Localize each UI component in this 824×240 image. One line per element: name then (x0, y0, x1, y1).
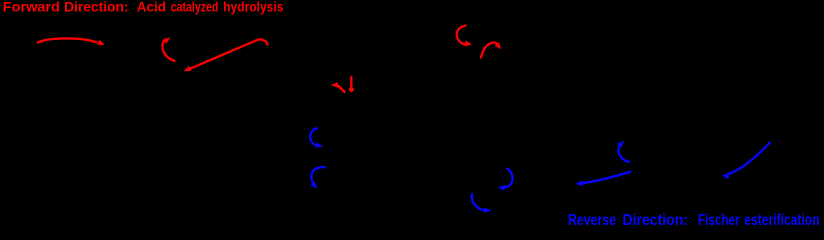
label: Forward Direction (3, 0, 284, 15)
svg-text:hydrolysis: hydrolysis (223, 0, 283, 15)
arrowhead R4: small left-pointing arrow (331, 82, 338, 88)
svg-text:Acid: Acid (137, 0, 166, 15)
svg-text:Direction:: Direction: (64, 0, 128, 15)
arrowhead B4 (484, 207, 491, 213)
svg-text:esterification: esterification (744, 212, 819, 226)
curved arrow (red) R1: shallow arc over ester (38, 38, 97, 42)
arrowhead B7 (721, 172, 729, 179)
arrowhead B2 (311, 182, 320, 191)
arrowhead R5 (465, 40, 473, 47)
arrowhead B6 (575, 180, 583, 187)
curved arrow (blue) B5: C-hook with top head (619, 143, 629, 161)
label: Reverse Direction (568, 212, 820, 229)
curved arrow (red) R6: n-arc (481, 42, 499, 57)
node R4 dot (349, 87, 354, 92)
arrowhead B5 (617, 139, 626, 148)
curved arrow (red) R2: C-hook on water (162, 40, 174, 61)
curved arrow (blue) B3: right-bulge J arrow (502, 169, 513, 188)
wire R4 tail (339, 86, 345, 92)
svg-text:catalyzed: catalyzed (171, 0, 219, 15)
svg-text:Direction:: Direction: (623, 212, 689, 226)
curved arrow (red) R3: long diagonal to carbonyl (190, 39, 268, 68)
wire R4 vertical stem (350, 77, 352, 87)
arrowhead R2 (163, 35, 172, 44)
arrowhead R1 (97, 40, 106, 48)
svg-text:Fischer: Fischer (698, 212, 740, 226)
curved arrow (red) R5: C-hook (457, 26, 467, 45)
arrowhead B3 (498, 185, 505, 191)
curved arrow (blue) B6: long shallow line (582, 172, 630, 184)
curved arrow (blue) B7: long diagonal lower right (727, 143, 770, 175)
curved arrow (blue) B1: upper C on tetrahedral intermediate (310, 128, 318, 146)
curved arrow (blue) B2: lower C on tetrahedral intermediate (311, 167, 325, 185)
arrowhead R3 (183, 66, 192, 74)
svg-text:Reverse: Reverse (568, 212, 616, 226)
arrowhead B1 (316, 142, 324, 149)
arrowhead R6 (495, 42, 504, 51)
svg-text:Forward: Forward (3, 0, 60, 15)
curved arrow (blue) B4: lower-left arc (472, 194, 486, 211)
